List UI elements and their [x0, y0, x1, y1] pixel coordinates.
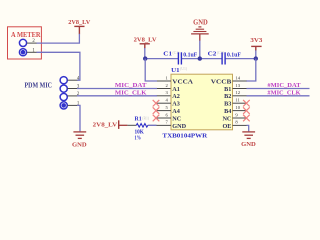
ground GND (bottom left)	[73, 131, 86, 133]
U1 pin 12 stub	[233, 95, 247, 97]
A METER pin 1 (filled circle)	[19, 49, 26, 56]
svg-text:VCCB: VCCB	[211, 78, 232, 85]
wire rail left segment	[145, 58, 178, 60]
U1 pin 4 stub	[156, 102, 171, 104]
svg-text:11: 11	[235, 98, 240, 103]
svg-text:13: 13	[235, 83, 240, 88]
resistor R1 zigzag	[136, 124, 148, 128]
svg-text:C1: C1	[163, 52, 172, 58]
PDM MIC pin 4 stub	[68, 79, 78, 81]
svg-text:(U1): (U1)	[180, 67, 188, 71]
ground GND (bottom right)	[242, 131, 255, 133]
svg-text:2V8_LV: 2V8_LV	[93, 121, 118, 128]
wire pin2 to 2V8_LV	[37, 34, 80, 43]
resistor R1 right stub	[148, 124, 157, 126]
svg-text:GND: GND	[172, 123, 186, 130]
U1 pin 14 stub	[233, 80, 247, 82]
no-ERC X pin 6	[153, 115, 160, 122]
svg-text:B3: B3	[224, 101, 231, 108]
PDM MIC pin 2 stub	[68, 95, 78, 97]
svg-text:10: 10	[235, 105, 240, 110]
svg-text:2V8_LV: 2V8_LV	[134, 37, 157, 44]
svg-text:U1: U1	[171, 67, 179, 74]
U1 pin 1 stub	[157, 80, 171, 82]
svg-text:NC: NC	[222, 115, 231, 122]
op-amp / IC U1 body	[171, 74, 233, 130]
svg-text:GND: GND	[72, 141, 87, 148]
node junction right	[254, 56, 258, 60]
svg-text:TXB0104PWR: TXB0104PWR	[162, 132, 207, 139]
svg-text:3V3: 3V3	[250, 37, 263, 44]
wire net MIC_DAT	[156, 88, 171, 90]
node junction left	[143, 56, 147, 60]
svg-text:2V8_LV: 2V8_LV	[68, 19, 90, 26]
wire 2V8_LV to R1	[119, 124, 128, 126]
svg-text:B1: B1	[224, 86, 231, 93]
no-ERC X pin 10	[243, 107, 250, 114]
svg-text:1%: 1%	[135, 136, 141, 142]
wire rail right segment	[225, 58, 255, 60]
svg-text:PDM MIC: PDM MIC	[25, 82, 53, 90]
svg-text:B4: B4	[224, 108, 231, 115]
svg-text:B2: B2	[224, 93, 231, 100]
node junction middle	[198, 56, 202, 60]
svg-text:#MIC_CLK: #MIC_CLK	[267, 89, 300, 96]
wire rail middle segment	[182, 58, 222, 60]
svg-text:(C2): (C2)	[217, 51, 225, 55]
wire pin1 down to PDM MIC pin4	[37, 52, 80, 80]
PDM MIC pin 1 (filled circle)	[60, 102, 67, 109]
wire net MIC_CLK	[156, 95, 171, 97]
wire net #MIC_CLK	[247, 95, 310, 97]
U1 pin 10 stub	[233, 110, 247, 112]
svg-text:GND: GND	[193, 19, 208, 27]
svg-text:GND: GND	[241, 141, 256, 148]
svg-text:A METER: A METER	[11, 31, 41, 39]
svg-text:0.1uF: 0.1uF	[227, 53, 241, 59]
no-ERC X pin 5	[153, 107, 160, 114]
wire PDM pin1 to ground	[77, 105, 80, 131]
PDM MIC pin 3 (open circle)	[60, 85, 67, 92]
svg-text:A1: A1	[172, 86, 180, 93]
svg-text:14: 14	[235, 75, 240, 80]
wire rail to VCCA pin1	[145, 59, 157, 81]
svg-text:MIC_CLK: MIC_CLK	[115, 89, 147, 96]
svg-text:0.1uF: 0.1uF	[183, 53, 197, 59]
U1 pin 13 stub	[233, 88, 247, 90]
wire net #MIC_DAT	[247, 88, 310, 90]
svg-text:12: 12	[235, 90, 240, 95]
U1 pin 11 stub	[233, 102, 247, 104]
PDM MIC pin 3 stub	[68, 88, 78, 90]
wire 2V8_LV stem to rail	[144, 48, 146, 59]
wire GND stem to rail	[199, 41, 201, 59]
svg-text:(R1): (R1)	[142, 116, 150, 120]
svg-text:VCCA: VCCA	[172, 78, 193, 85]
svg-text:MIC_DAT: MIC_DAT	[115, 82, 147, 89]
A METER pin 2 stub	[27, 42, 37, 44]
U1 pin 5 stub	[156, 110, 171, 112]
no-ERC X pin 4	[153, 100, 160, 107]
U1 pin 8 stub	[233, 124, 247, 126]
PDM MIC pin 1 stub	[68, 104, 78, 106]
svg-text:A2: A2	[172, 93, 180, 100]
wire OE to ground	[247, 125, 249, 131]
A METER pin 2 (open circle)	[19, 39, 26, 46]
svg-text:R1: R1	[135, 116, 142, 122]
PDM MIC pin 4 (open circle)	[60, 77, 67, 84]
wire 3V3 stem to rail	[255, 50, 257, 58]
U1 pin 9 stub	[233, 117, 247, 119]
svg-text:NC: NC	[172, 115, 181, 122]
svg-text:A4: A4	[172, 108, 180, 115]
PDM MIC pin 2 (open circle)	[60, 93, 67, 100]
svg-text:OE: OE	[222, 123, 231, 130]
connector J? A METER box	[8, 27, 42, 59]
svg-text:#MIC_DAT: #MIC_DAT	[267, 82, 301, 89]
A METER pin 1 stub	[27, 51, 37, 53]
svg-text:C2: C2	[208, 52, 217, 58]
U1 pin 6 stub	[156, 117, 171, 119]
U1 pin 7 stub	[149, 124, 172, 126]
no-ERC X pin 11	[243, 100, 250, 107]
wire rail to VCCB pin14	[246, 59, 256, 81]
no-ERC X pin 9	[243, 115, 250, 122]
resistor R1 left stub	[127, 124, 136, 126]
svg-text:A3: A3	[172, 101, 180, 108]
